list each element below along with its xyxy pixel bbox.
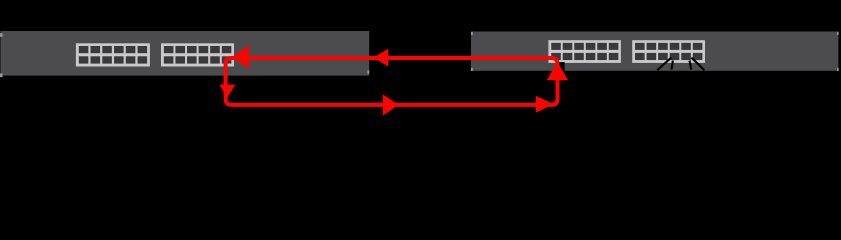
SW2 left-edge bottom notch: [471, 68, 473, 71]
arrowhead A5 (points up, right segment): [547, 62, 568, 80]
arrowhead A6 (points right, at bottom-right corner): [536, 96, 554, 113]
switch SW2 (right) body: [471, 32, 838, 71]
SW1 left-edge top notch: [0, 33, 3, 37]
SW2 stand legs (black lines under port group 2): [657, 58, 704, 71]
SW2 left-edge top notch: [471, 32, 473, 35]
SW1 left-edge bottom notch: [0, 73, 3, 77]
red loop wire (rounded rectangle path): [226, 58, 558, 105]
arrowhead A2 (points left, at top-left corner): [232, 45, 249, 68]
SW2 right-edge top notch: [837, 32, 839, 35]
SW2 port group 2: [632, 40, 705, 63]
SW2 port group 1: [548, 40, 621, 63]
SW1 port group 1: [76, 43, 150, 66]
black patch behind up arrow: [556, 62, 565, 71]
SW1 right-edge bottom notch: [367, 70, 369, 74]
SW2 right-edge bottom notch: [837, 68, 839, 71]
SW1 port group 2: [161, 43, 234, 66]
arrowhead A3 (points down, left segment): [219, 85, 235, 98]
switch SW1 (left) body: [1, 31, 370, 76]
arrowhead A1 (points left, mid top segment): [374, 49, 389, 67]
arrowhead A4 (points right, mid bottom segment): [383, 94, 399, 115]
